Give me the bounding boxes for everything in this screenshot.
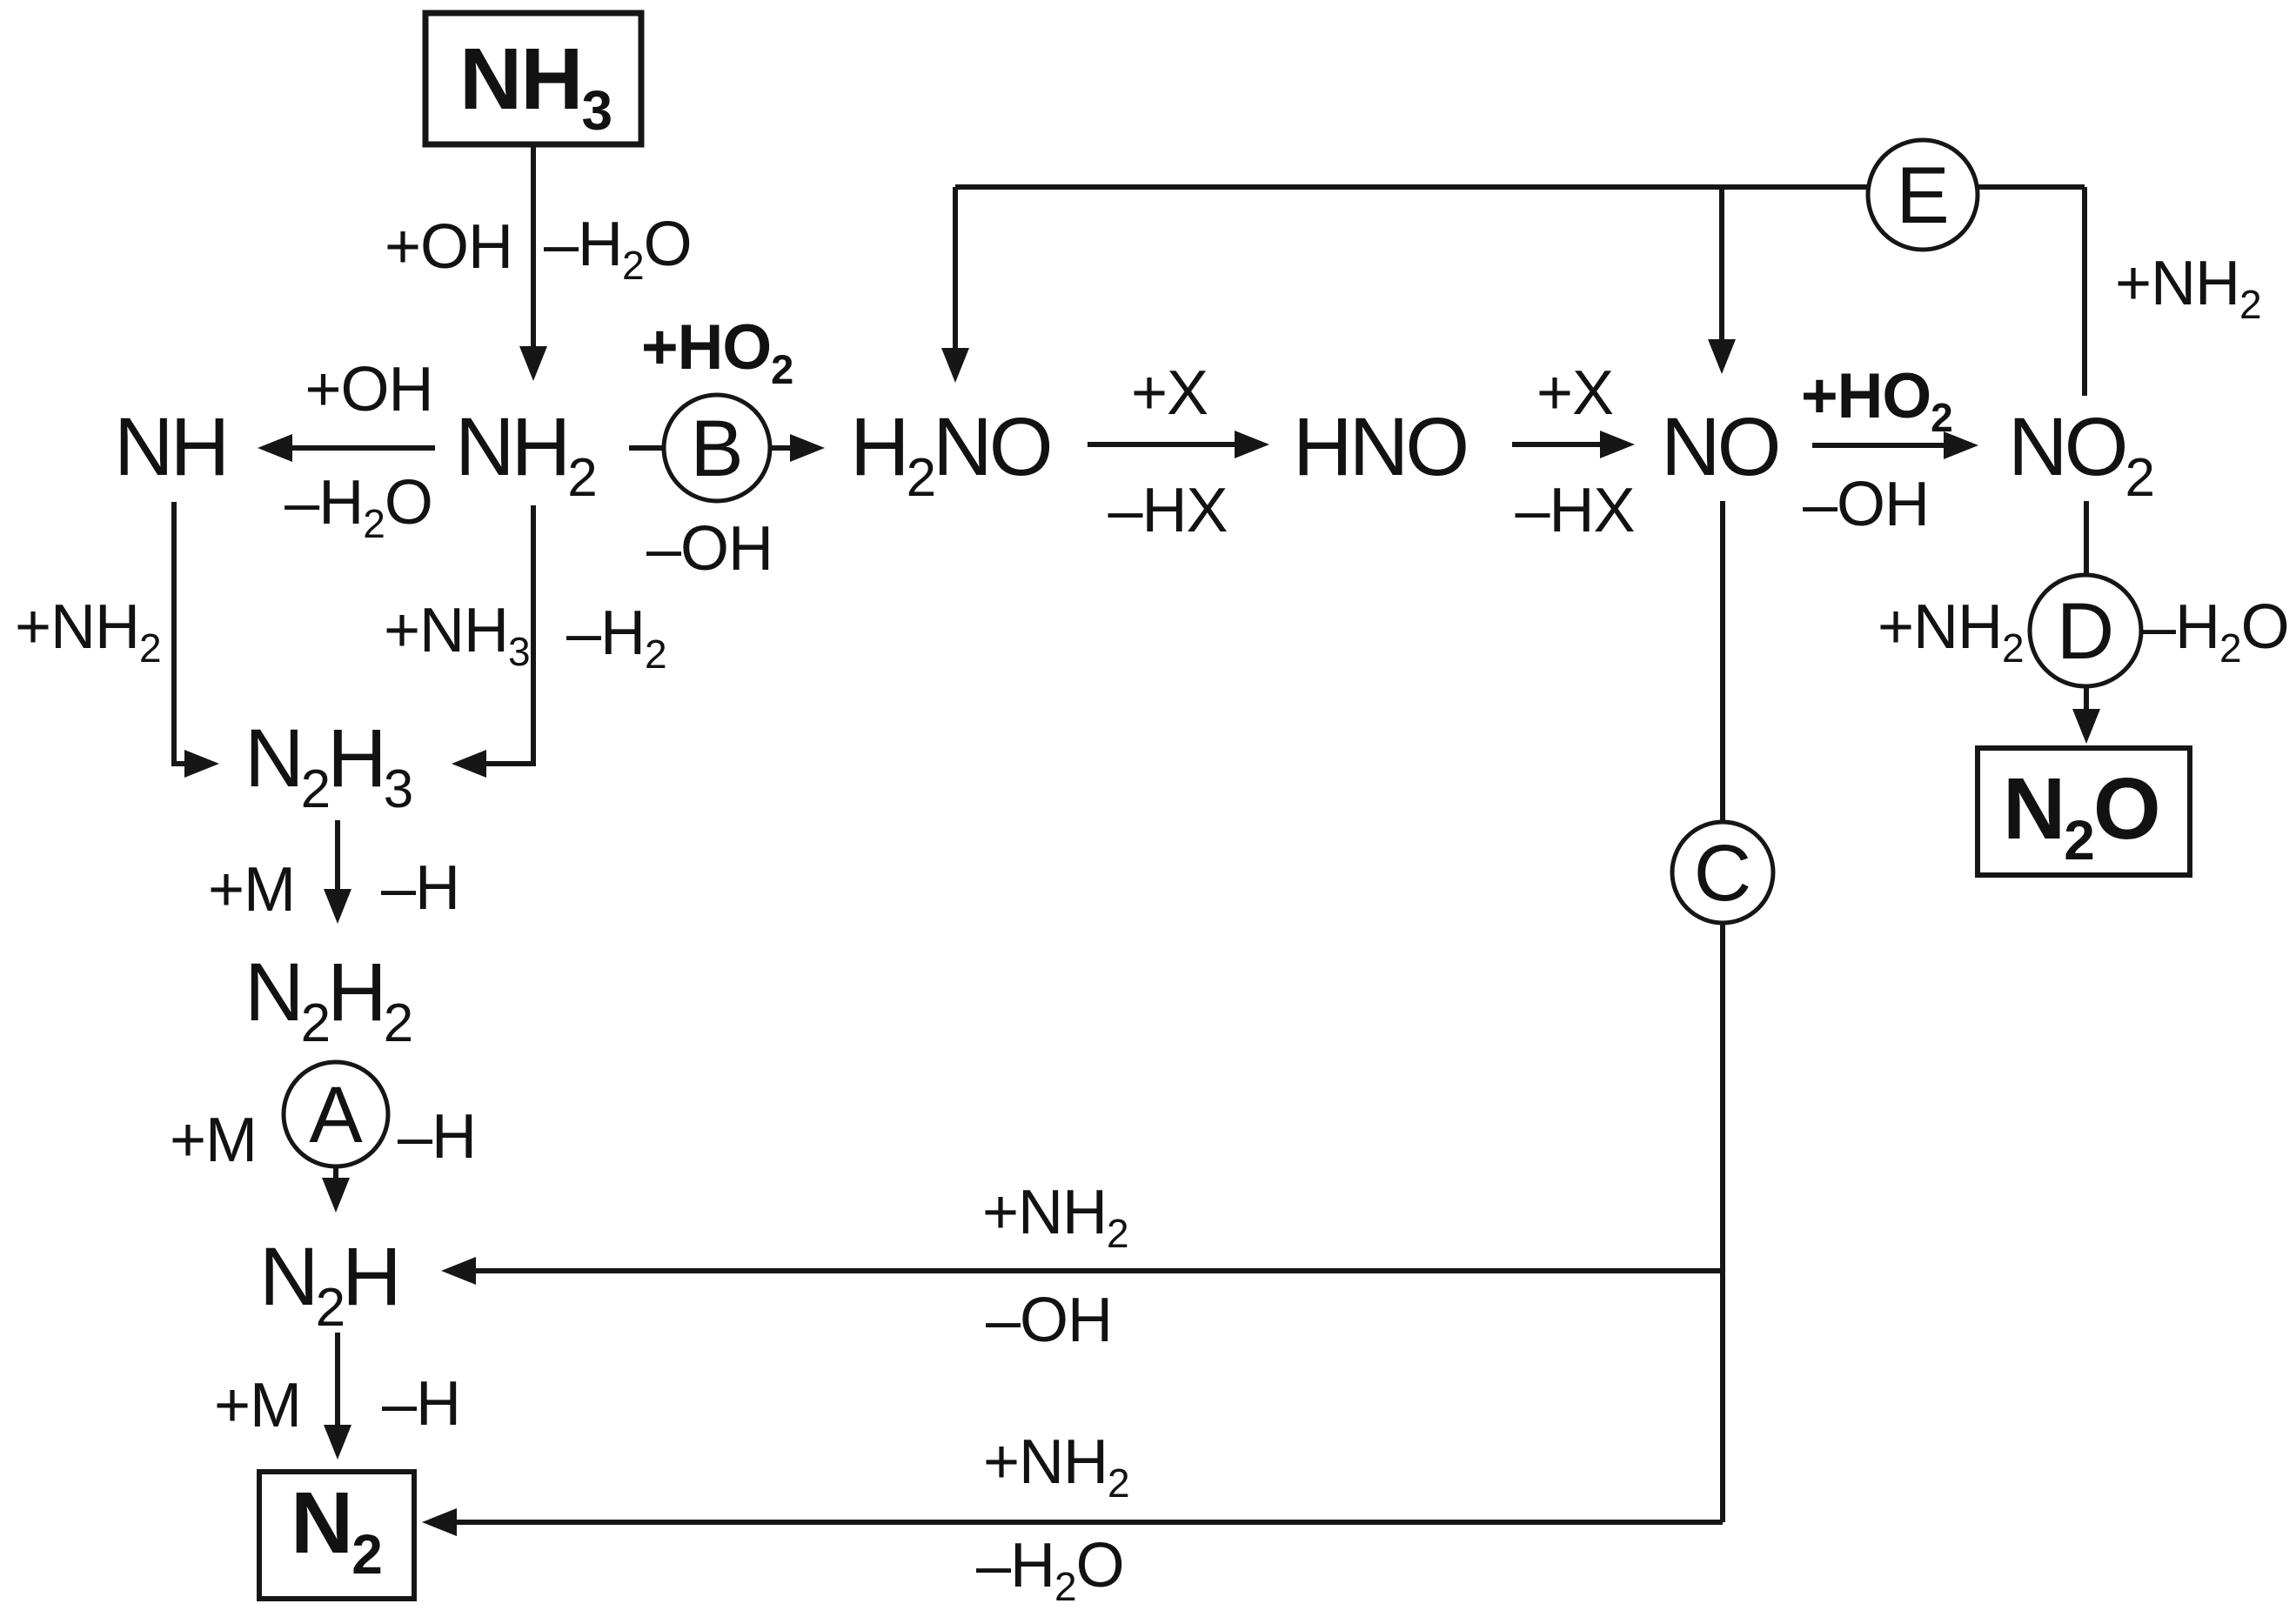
svg-text:NH: NH — [114, 401, 226, 493]
arrow NH down to N2H3 — [174, 502, 219, 778]
wire NO down to circle C — [1720, 501, 1725, 823]
svg-text:+M: +M — [214, 1371, 301, 1440]
circle E — [1868, 140, 1978, 250]
svg-text:–H: –H — [381, 853, 459, 923]
svg-text:+HO2: +HO2 — [641, 312, 793, 392]
svg-text:+NH2: +NH2 — [983, 1427, 1129, 1506]
wire NO2 up to E line — [2082, 187, 2087, 396]
arrow E line down to NO — [1708, 187, 1736, 374]
svg-text:A: A — [309, 1071, 363, 1159]
svg-text:–HX: –HX — [1108, 476, 1227, 545]
circle B — [664, 395, 770, 501]
svg-text:+NH2: +NH2 — [2115, 249, 2261, 327]
svg-text:+M: +M — [208, 855, 295, 925]
arrow NH3 to NH2 — [519, 144, 547, 381]
svg-text:–H2O: –H2O — [544, 210, 692, 288]
arrow circle B to H2NO — [770, 434, 825, 462]
svg-text:–OH: –OH — [1803, 470, 1929, 539]
svg-text:–OH: –OH — [986, 1286, 1112, 1355]
svg-text:+OH: +OH — [305, 355, 432, 424]
arrow N2H3 to N2H2 — [324, 820, 351, 924]
arrow E line down to H2NO — [941, 187, 969, 383]
arrow HNO to NO — [1512, 431, 1635, 458]
svg-text:+NH3: +NH3 — [384, 596, 530, 674]
arrow N2H to N2 — [324, 1333, 351, 1460]
species N2 box — [259, 1472, 414, 1599]
svg-text:HNO: HNO — [1293, 401, 1466, 493]
svg-text:–H2O: –H2O — [284, 468, 432, 546]
arrow circle A to N2H — [322, 1166, 350, 1213]
svg-text:–HX: –HX — [1515, 476, 1634, 545]
species NH3 box — [425, 13, 641, 144]
svg-text:H2NO: H2NO — [850, 401, 1050, 508]
wire E horizontal — [955, 184, 2085, 190]
svg-text:B: B — [690, 404, 743, 493]
arrow circle D to N2O box — [2072, 686, 2100, 744]
arrow NH2 to NH — [258, 434, 435, 462]
circle C — [1672, 822, 1773, 923]
arrow C branch to N2H — [441, 1257, 1723, 1285]
wire NO2 down to circle D — [2084, 501, 2089, 575]
circle A — [284, 1062, 388, 1166]
arrow C corner to N2 — [422, 1508, 1723, 1536]
svg-text:+OH: +OH — [385, 212, 512, 282]
arrow NO to NO2 — [1812, 431, 1978, 459]
svg-text:C: C — [1694, 829, 1751, 918]
circle D — [2030, 575, 2141, 686]
svg-text:D: D — [2057, 587, 2114, 676]
arrow H2NO to HNO — [1088, 431, 1269, 458]
svg-text:NO: NO — [1661, 401, 1778, 493]
species N2O box — [1978, 748, 2190, 875]
svg-text:E: E — [1896, 151, 1949, 240]
svg-text:+NH2: +NH2 — [1878, 592, 2024, 671]
wire NH2 to circle B — [629, 445, 665, 451]
svg-text:–H: –H — [398, 1102, 476, 1172]
wire circle C down to N2 corner — [1720, 922, 1725, 1522]
svg-text:–H2O: –H2O — [976, 1531, 1124, 1609]
arrow NH2 down to N2H3 — [452, 505, 533, 778]
svg-text:+X: +X — [1536, 358, 1613, 428]
svg-text:+NH2: +NH2 — [15, 592, 161, 671]
svg-text:+NH2: +NH2 — [982, 1178, 1128, 1256]
svg-text:+HO2: +HO2 — [1801, 361, 1952, 440]
svg-text:+M: +M — [170, 1106, 257, 1175]
svg-text:–H: –H — [382, 1369, 460, 1439]
svg-text:–OH: –OH — [646, 514, 773, 584]
svg-text:+X: +X — [1131, 358, 1208, 428]
svg-text:–H2O: –H2O — [2141, 592, 2289, 671]
